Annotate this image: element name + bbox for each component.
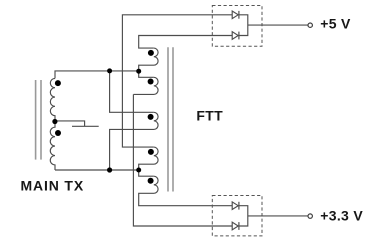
FTT winding W2: [133, 77, 158, 94]
wire: MAIN TX top junction to FTT winding W3 top: [110, 71, 154, 112]
diode D2 (top box, lower): [232, 32, 238, 40]
terminal +5V: [308, 23, 312, 27]
junction dot: tap B (W4-W5): [136, 168, 141, 173]
wire: diode D1/D2 outputs join: [239, 15, 248, 36]
wire: center tap of MAIN TX: [55, 121, 85, 126]
transformer T1 core (MAIN TX): [36, 80, 41, 160]
svg-text:+3.3 V: +3.3 V: [320, 207, 363, 223]
transformer T1 winding lower half (MAIN TX primary): [50, 122, 55, 170]
FTT winding W5: [139, 176, 233, 206]
diode D3 (bottom box, upper): [232, 202, 238, 210]
junction dot: tap A (W1-W2): [136, 69, 141, 74]
wire: top rectifier top diode to FTT winding W4 (left bus): [122, 15, 232, 147]
FTT winding W1: [139, 48, 158, 71]
wire: +3.3V output: [248, 215, 308, 217]
ground bar at center tap: [72, 125, 99, 127]
wire: FTT W2 bottom to bottom rectifier bottom diode (mid bus): [133, 94, 232, 226]
svg-text:FTT: FTT: [196, 108, 223, 124]
rectifier box 2 (dashed, +3.3V): [212, 196, 262, 236]
wire: diode D3/D4 outputs join: [239, 206, 248, 226]
junction dot: bottom lead / W3 branch: [107, 167, 112, 172]
polarity dot FTT W4: [148, 149, 154, 155]
svg-text:+5 V: +5 V: [320, 16, 351, 32]
transformer T1 winding upper half (MAIN TX primary): [50, 78, 55, 121]
polarity dot FTT W1: [148, 50, 154, 56]
transformer T2 core (FTT): [168, 47, 173, 191]
svg-text:MAIN TX: MAIN TX: [21, 178, 85, 194]
wire: MAIN TX bottom lead to FTT tap B: [55, 169, 139, 171]
polarity dot FTT W2: [148, 79, 154, 85]
polarity dot MAIN TX lower: [55, 130, 61, 136]
FTT winding W4: [139, 147, 158, 170]
junction dot: top lead / W3 branch: [107, 68, 112, 73]
wire: MAIN TX top lead to FTT tap A: [55, 71, 139, 79]
wire: +5V output: [248, 24, 308, 26]
FTT winding W3: [110, 112, 158, 170]
wire: top rectifier bottom diode to FTT winding W1: [139, 36, 233, 49]
polarity dot FTT W3: [148, 114, 154, 120]
terminal +3.3V: [308, 214, 312, 218]
polarity dot FTT W5: [148, 178, 154, 184]
wire: tap A into FTT winding W2: [139, 71, 154, 77]
wire: tap B into FTT winding W5: [139, 170, 154, 176]
polarity dot MAIN TX upper: [55, 80, 61, 86]
diode D4 (bottom box, lower): [232, 222, 238, 230]
rectifier box 1 (dashed, +5V): [212, 6, 262, 47]
junction dot: MAIN TX center tap: [52, 119, 57, 124]
diode D1 (top box, upper): [232, 11, 238, 19]
